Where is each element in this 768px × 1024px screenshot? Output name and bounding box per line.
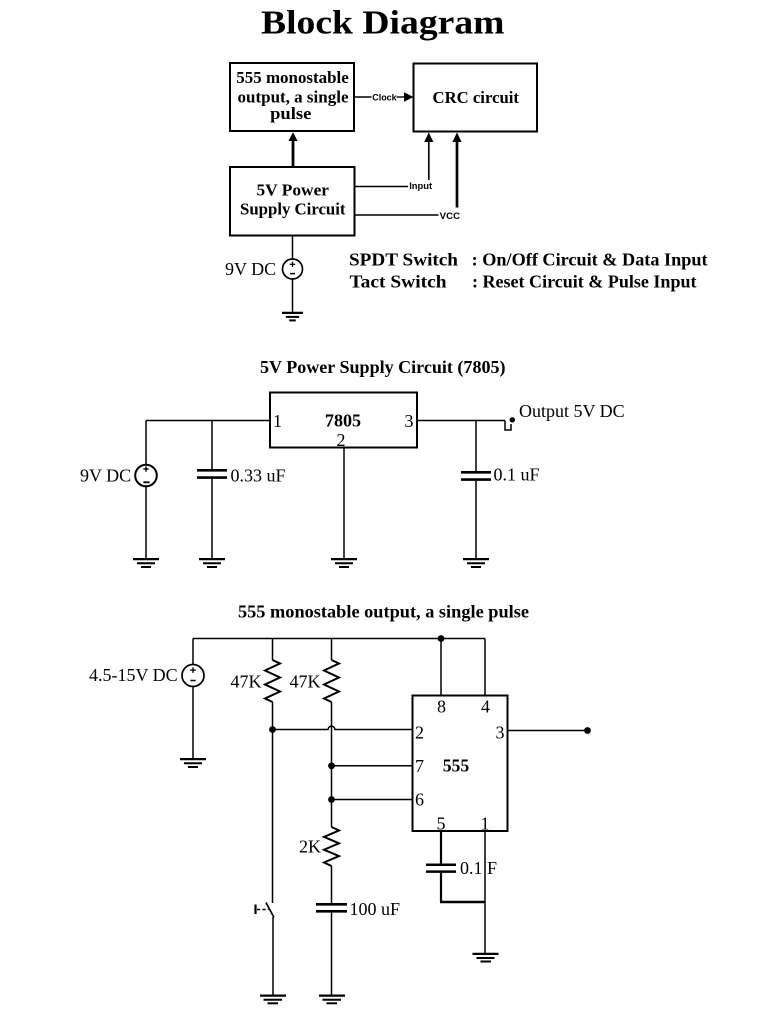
wire: rail to source V3: [192, 639, 194, 666]
svg-text:SPDT Switch: SPDT Switch: [349, 250, 458, 270]
svg-text:9V DC: 9V DC: [80, 466, 131, 486]
ground: below source V3: [180, 759, 206, 767]
switch S1: tact switch: [256, 903, 275, 918]
wire: source to ground: [192, 687, 194, 759]
capacitor C1: 0.33 uF: [197, 470, 227, 477]
svg-text:6: 6: [415, 790, 424, 810]
svg-text:CRC circuit: CRC circuit: [433, 88, 520, 107]
svg-text:8: 8: [437, 697, 446, 717]
wire: pin 6 to node: [332, 799, 413, 801]
svg-text:7: 7: [415, 756, 424, 776]
wire: R3 to C3: [331, 866, 333, 903]
node: output terminal hook: [505, 417, 515, 430]
svg-text:47K: 47K: [231, 672, 262, 692]
resistor R1: 47K: [265, 660, 280, 702]
wire: pin 3 output: [508, 730, 588, 732]
wire: switch to ground: [272, 917, 274, 995]
wire: 7805 pin2 to ground: [343, 448, 345, 559]
IC U2: 555 timer box: [413, 696, 508, 834]
source V2: 9V DC: [135, 465, 157, 487]
wire: R1 to trigger node: [272, 702, 274, 730]
resistor R2: 47K: [324, 660, 339, 702]
svg-text:555 monostable output, a singl: 555 monostable output, a single pulse: [238, 601, 529, 621]
svg-text:1: 1: [273, 411, 282, 431]
wire: rail to R1: [272, 639, 274, 661]
svg-text:Tact Switch: Tact Switch: [350, 272, 447, 292]
wire: trigger node down to switch: [272, 730, 274, 904]
svg-text:: Reset Circuit & Pulse Input: : Reset Circuit & Pulse Input: [472, 272, 697, 292]
arrow: Clock into CRC: [397, 92, 414, 102]
wire: C4 bottom to pin1 wire: [440, 901, 486, 903]
capacitor C3: 100 uF: [316, 904, 347, 911]
svg-text:Supply Circuit: Supply Circuit: [240, 200, 346, 219]
svg-text:0.1 uF: 0.1 uF: [494, 465, 540, 485]
ground: below pin 1: [473, 954, 499, 962]
arrow: VCC into CRC: [452, 133, 461, 208]
ground: below C3: [319, 996, 345, 1004]
svg-text:1: 1: [481, 814, 490, 834]
node: pin6 junction: [328, 796, 335, 803]
wire: C3 to ground: [331, 913, 333, 996]
svg-text:100 uF: 100 uF: [350, 899, 401, 919]
svg-text:4.5-15V DC: 4.5-15V DC: [89, 665, 178, 685]
block: 5V Power Supply Circuit box: [230, 167, 355, 236]
svg-text:9V DC: 9V DC: [225, 259, 276, 279]
ground: below 7805 pin 2: [331, 559, 357, 567]
arrow: power supply to 555 block: [288, 132, 297, 167]
wire: C2 to ground: [475, 481, 477, 559]
block: CRC circuit box: [414, 64, 538, 132]
wire: left rail: [146, 420, 270, 422]
wire: pin 1 to ground: [484, 831, 486, 954]
wire: source to ground: [145, 487, 147, 559]
wire: Clock link: [354, 96, 372, 98]
svg-text:555 monostable: 555 monostable: [236, 68, 349, 87]
wire: rail to R2: [331, 639, 333, 661]
svg-text:2: 2: [415, 723, 424, 743]
svg-text:5: 5: [437, 814, 446, 834]
svg-text:pulse: pulse: [270, 104, 312, 123]
capacitor C2: 0.1 uF: [461, 472, 491, 479]
wire: pin 5 to C4: [440, 831, 442, 864]
svg-text:Clock: Clock: [372, 93, 397, 104]
svg-text:0.1: 0.1: [460, 858, 483, 878]
svg-text:5V Power Supply Circuit (7805): 5V Power Supply Circuit (7805): [260, 357, 506, 378]
ground: below C1: [199, 559, 225, 567]
wire: box3 to 9V source: [292, 236, 294, 260]
wire: right rail: [417, 420, 505, 422]
node: pin7 junction: [328, 762, 335, 769]
wire: C1 to ground: [211, 479, 213, 559]
wire: pin 7 to R2 node: [332, 765, 413, 767]
svg-text:: On/Off Circuit & Data Input: : On/Off Circuit & Data Input: [472, 250, 708, 270]
node: output terminal: [584, 727, 591, 734]
svg-text:7805: 7805: [325, 411, 361, 431]
svg-text:Block Diagram: Block Diagram: [261, 5, 505, 42]
svg-text:3: 3: [405, 411, 414, 431]
wire: rail to 9V source: [145, 421, 147, 466]
svg-text:Output 5V DC: Output 5V DC: [519, 401, 625, 421]
svg-text:2K: 2K: [299, 837, 321, 857]
wire: rail to C1: [211, 421, 213, 470]
wire: rail to C2: [475, 421, 477, 472]
block: 555 monostable output box: [230, 63, 354, 131]
svg-text:2: 2: [337, 430, 346, 450]
svg-text:47K: 47K: [290, 672, 321, 692]
arrow: Input into CRC: [424, 133, 433, 181]
wire: top rail: [193, 638, 485, 640]
ground: below 9V source: [282, 313, 303, 321]
ground: below C2: [463, 559, 489, 567]
svg-text:4: 4: [481, 697, 490, 717]
svg-text:5V Power: 5V Power: [257, 181, 330, 200]
wire: R2 down through pin7/pin6 nodes: [331, 702, 333, 827]
capacitor C4: 0.1 F: [426, 865, 456, 872]
node: pin8 rail junction: [438, 635, 445, 642]
svg-text:VCC: VCC: [440, 211, 461, 222]
svg-text:F: F: [487, 858, 497, 878]
wire: rail to pin 8: [440, 639, 442, 696]
wire: C4 down: [440, 873, 442, 902]
wire: trigger line to pin 2 with hop over R2 wire: [273, 726, 413, 729]
wire: source to ground: [292, 279, 294, 313]
ground: below switch: [260, 996, 286, 1004]
svg-text:555: 555: [443, 756, 470, 776]
wire: rail to pin 4: [484, 639, 486, 696]
resistor R3: 2K: [324, 827, 339, 866]
ground: below 9V source: [133, 559, 159, 567]
svg-text:Input: Input: [409, 181, 433, 192]
node: trigger junction: [269, 726, 276, 733]
source V3: 4.5-15V DC: [182, 665, 204, 687]
source V1: 9V DC: [283, 259, 303, 279]
svg-text:0.33 uF: 0.33 uF: [231, 466, 286, 486]
svg-text:3: 3: [496, 723, 505, 743]
IC U1: 7805 regulator box: [270, 393, 417, 451]
wire: VCC link: [354, 214, 439, 216]
wire: Input link: [354, 186, 408, 188]
